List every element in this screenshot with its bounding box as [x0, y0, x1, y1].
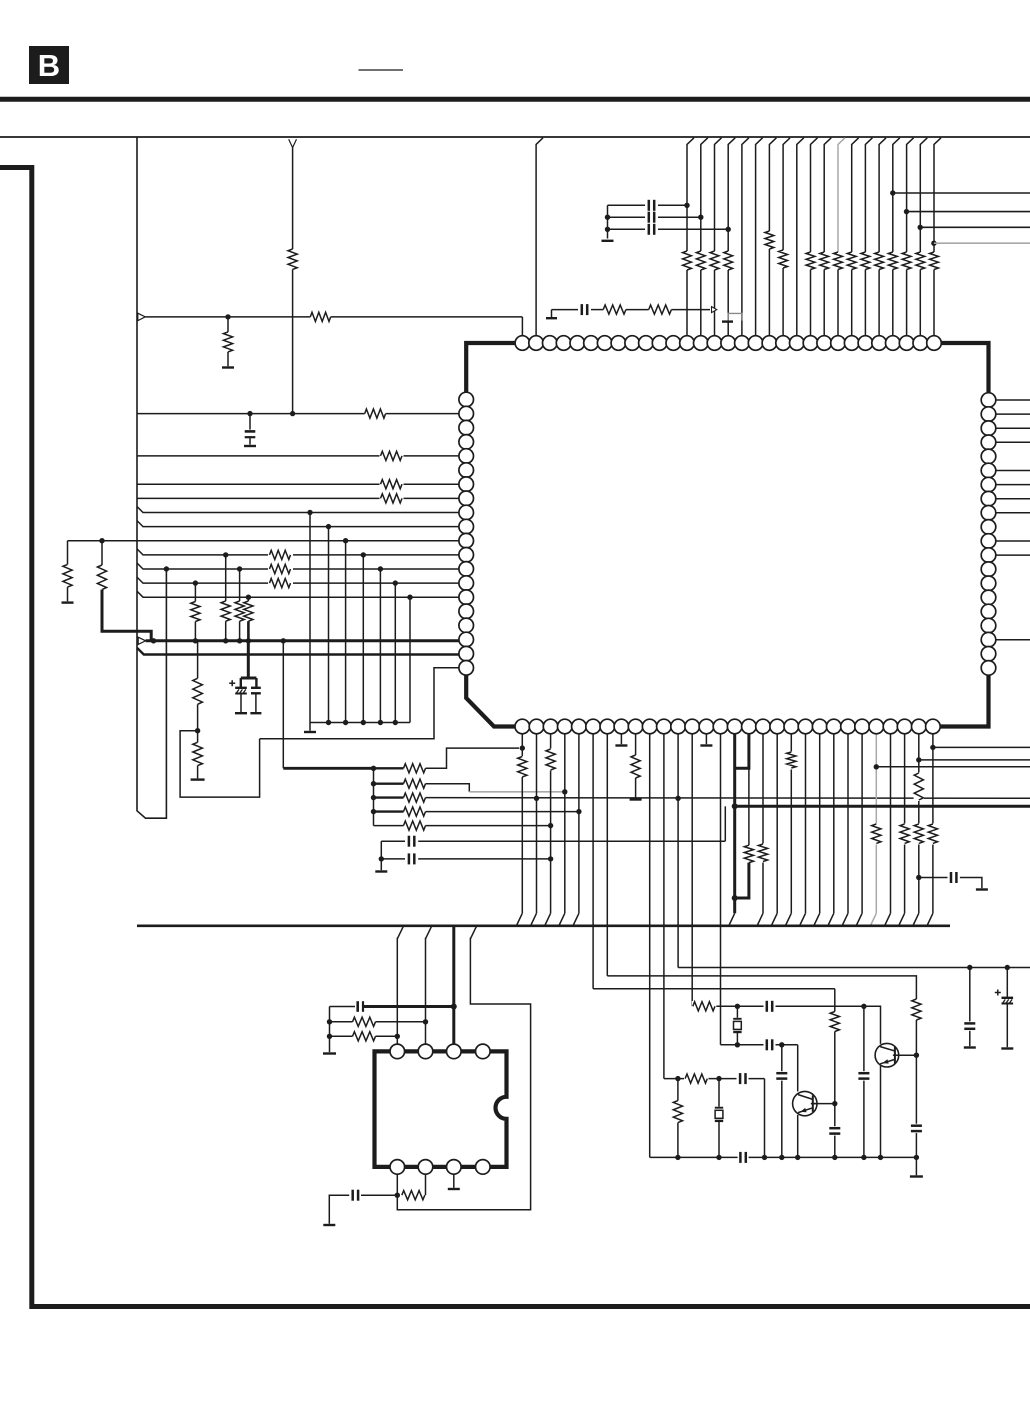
wire top pin31 to bus with resistor	[934, 138, 941, 336]
resistor branch x195	[194, 583, 196, 601]
line2 upper osc	[721, 1044, 798, 1046]
wire top pin24 to bus with resistor	[837, 252, 839, 336]
capacitor on U2 net	[330, 1006, 356, 1008]
row to left pin l15	[137, 591, 459, 597]
row to left pin l9	[137, 507, 459, 513]
capacitor branch x863	[863, 1006, 865, 1071]
thick net into U2 pin3	[363, 1005, 453, 1008]
wire with arrow from top bus	[289, 139, 297, 147]
wire bundle vertical x=395.3	[394, 583, 396, 722]
IC U2 bottom pin 6	[447, 1160, 462, 1175]
top bus line	[0, 136, 1030, 138]
net right pin r6 to edge	[996, 470, 1030, 472]
lower osc line	[664, 1078, 765, 1080]
second bus line	[137, 648, 460, 655]
row to left pin l14	[137, 577, 459, 583]
tap wire U2 pin1	[396, 938, 398, 1044]
long wire y=738.8 to left pin l20	[260, 668, 459, 739]
hatch hook	[470, 926, 476, 938]
ground stub U2 pin7	[453, 1174, 455, 1188]
capacitor + ground U2 bottom	[361, 1194, 397, 1196]
wire top pin23 to bus with resistor	[824, 138, 831, 336]
osc ground bus	[650, 1156, 738, 1158]
hatch hook	[397, 926, 403, 938]
cap row rail + ground	[380, 841, 382, 859]
wire top pin17 to bus	[742, 138, 749, 336]
wire bottom pin b5	[578, 734, 580, 914]
wire top pin19 to bus with resistor	[769, 138, 776, 336]
grounded series RC line	[551, 310, 553, 317]
row to left pin l2	[137, 413, 459, 415]
net right pin r1 to edge	[996, 399, 1030, 401]
net b26 to right edge	[876, 766, 1030, 768]
row rail x=373.5	[373, 768, 375, 825]
net line from top pin t30 to right edge	[918, 225, 923, 230]
resistor upper osc line	[692, 1001, 717, 1012]
resistor lower osc line	[684, 1073, 709, 1084]
wire top pin18 to bus	[756, 138, 763, 336]
thick tap wire U2 pin3	[452, 926, 455, 1044]
wire top pin29 to bus with resistor	[907, 138, 914, 336]
net right pin r4 to edge	[996, 441, 1030, 443]
wire bundle vertical x=310	[309, 513, 311, 723]
wire bundle vertical x=380.4	[379, 569, 381, 723]
wire bundle vertical x=328.5	[328, 527, 330, 723]
rail with ground (U2 left)	[329, 1007, 331, 1053]
IC U1 outline bottom-right	[935, 675, 989, 727]
hatch hook	[426, 926, 432, 938]
wire bottom pin b6 (net to Q1 rail)	[592, 734, 594, 989]
resistor branch x225	[225, 555, 227, 601]
wire top pin28 to bus with resistor	[893, 138, 900, 336]
wire bottom pin b27	[890, 734, 892, 914]
resistor branch x239	[239, 569, 241, 601]
wire bottom pin b23	[833, 734, 835, 914]
wire bottom pin b10 (osc rail left)	[649, 734, 651, 1158]
node row to top pin1 with resistor	[138, 313, 145, 320]
capacitor right1 to ground	[969, 968, 971, 1022]
resistor U2 row2	[330, 1035, 353, 1037]
net right pin r9 to edge	[996, 512, 1030, 514]
wire bundle vertical x=345.6	[345, 541, 347, 723]
wire top pin20 to bus with resistor	[783, 138, 790, 336]
Q2 emitter down	[880, 1066, 882, 1158]
wire top pin22 to bus with resistor	[811, 138, 818, 336]
row to left pin l7	[137, 483, 459, 485]
Q2 base to rail	[893, 1054, 917, 1056]
ground stub pin b8	[620, 734, 622, 744]
wire top pin16 to bus with resistor	[728, 138, 735, 336]
wire bus to row1	[282, 641, 284, 769]
resistor RA to ground	[67, 541, 69, 565]
IC U2 top pin 4	[476, 1044, 491, 1059]
capacitor branch to ground (row l2)	[249, 414, 251, 430]
IC U1 outline top-right	[941, 343, 989, 393]
transistor Q2	[875, 1043, 899, 1067]
net line from top pin t28 to right edge	[890, 190, 895, 195]
net b29 to right edge	[919, 759, 1030, 761]
wire bottom pin b12 (right cap net)	[677, 734, 679, 968]
capacitor row A	[381, 840, 405, 842]
wire bottom pin b7 (to Q2 base net)	[606, 734, 608, 976]
wire top pin15 to bus with resistor	[715, 138, 722, 336]
IC U2 top pin 1	[390, 1044, 405, 1059]
net right pin r3 to edge	[996, 427, 1030, 429]
main thick bus	[138, 637, 145, 644]
net b30 to right edge	[933, 746, 1030, 748]
wire bottom pin b24	[847, 734, 849, 914]
capacitor to ground (pair)	[255, 678, 257, 687]
thick wire bottom pin b17 with resistor	[735, 734, 749, 769]
resistor RB to bus (thick)	[101, 541, 103, 565]
resistor row1 to pin b1	[283, 767, 373, 770]
electrolytic right to ground	[1006, 968, 1008, 998]
wire bottom pin b19	[776, 734, 778, 914]
page top rule (thick)	[0, 97, 1030, 102]
wire top pin30 to bus with resistor	[920, 138, 927, 336]
wire top pin25 to bus with resistor	[852, 138, 859, 336]
IC U2 bottom pin 5	[476, 1160, 491, 1175]
transistor Q1	[793, 1091, 817, 1115]
resistor U2 bottom	[402, 1191, 425, 1200]
IC U1 bottom pins	[515, 719, 940, 734]
IC U2 top pin 3	[447, 1044, 462, 1059]
wire bottom pin b28	[904, 734, 906, 914]
wire bottom pin b20	[790, 734, 792, 914]
Q1 emitter to bus	[797, 1115, 799, 1158]
bus hatch line	[137, 924, 950, 927]
wire top pin14 to bus with resistor	[701, 138, 708, 336]
wire top pin21 to bus	[797, 138, 804, 336]
wire bundle vertical x=363.3	[362, 555, 364, 723]
wire bottom pin b4	[564, 734, 566, 914]
wire top pin27 to bus with resistor	[879, 138, 886, 336]
crystal X1	[718, 1079, 720, 1107]
wire bottom pin b18	[762, 734, 764, 914]
wire bottom pin b11 (lower osc)	[663, 734, 665, 1079]
wire bottom pin b13 (upper osc)	[691, 734, 693, 1007]
capacitor upper osc line	[764, 1001, 776, 1012]
IC U1 left pins	[459, 392, 474, 675]
net line from top pin t29 to right edge	[904, 209, 909, 214]
tap wire U2 pin2	[425, 938, 427, 1044]
U2 pin6 wire	[425, 1174, 427, 1195]
rail x916 cap to bus	[915, 1055, 917, 1124]
wire bottom pin b25	[861, 734, 863, 914]
capacitor branch x781	[781, 1045, 783, 1071]
ground stub pin b14	[705, 734, 707, 744]
row to left pin l12	[137, 549, 459, 555]
inner frame wire	[137, 137, 166, 818]
resistor U2 row1	[330, 1021, 353, 1023]
row to left pin l13	[137, 563, 459, 569]
row to left pin l8	[137, 497, 459, 499]
wire top pin26 to bus with resistor	[865, 138, 872, 336]
gray wire bottom pin b26	[875, 734, 877, 914]
resistor lower osc to bus	[677, 1079, 679, 1101]
capacitor C t13 row	[608, 204, 646, 206]
IC U2 top pin 2	[418, 1044, 433, 1059]
IC U1 outline bottom-left (chamfer)	[466, 675, 515, 727]
capacitor branch b29 to ground	[919, 877, 948, 879]
capacitor C t16 row	[608, 228, 646, 230]
loop wire to U2 bottom	[397, 938, 530, 1210]
wire bottom pin b29	[918, 734, 920, 914]
wire bottom pin b2	[536, 734, 538, 914]
wire top pin2 to bus	[536, 138, 543, 336]
wire bottom pin b22	[819, 734, 821, 914]
capacitor row B	[381, 858, 405, 860]
wire top pin13 to bus with resistor	[687, 138, 694, 336]
resistor pin b9 to ground	[635, 734, 637, 755]
wire bottom pin b1	[521, 734, 523, 914]
electrolytic capacitor to ground	[247, 641, 250, 678]
resistor to ground from row	[227, 317, 229, 332]
capacitor lower osc line	[737, 1073, 749, 1084]
wire bottom pin b3	[550, 734, 552, 914]
IC U2 bottom pin 8	[390, 1160, 405, 1175]
capacitor C t14 row	[608, 216, 646, 218]
wire bottom pin b15	[720, 734, 722, 1045]
capacitor row rail with ground	[607, 205, 609, 238]
net right pin r8 to edge	[996, 498, 1030, 500]
resistor row4	[374, 810, 404, 812]
mini bus with ground	[310, 722, 410, 724]
thick net y=806 to right edge	[735, 805, 1030, 808]
thick wire bottom pin b16	[733, 734, 736, 914]
loop wire from chain to long line	[180, 731, 260, 797]
svg-text:B: B	[38, 48, 60, 83]
resistor row3 long net	[374, 796, 404, 798]
resistor row2 (gray tail)	[374, 783, 404, 785]
wire line end to bus	[764, 1079, 766, 1158]
row to left pin l10	[137, 521, 459, 527]
IC U1 top pins	[515, 336, 941, 351]
resistor row5	[374, 825, 404, 827]
IC U2 bottom pin 7	[418, 1160, 433, 1175]
row to left pin l11	[68, 540, 460, 542]
section label box B	[29, 46, 69, 84]
row to left pin l5	[137, 455, 459, 457]
upper osc line	[692, 1006, 880, 1044]
net right pin r2 to edge	[996, 413, 1030, 415]
IC U1 outline top-left	[466, 343, 516, 392]
net right pin r7 to edge	[996, 484, 1030, 486]
net right pin r12 to edge	[996, 554, 1030, 556]
Q1 base to rail	[811, 1103, 835, 1105]
IC U1 right pins	[981, 393, 996, 676]
net line from top pin t31 to right edge	[931, 241, 936, 246]
wire bottom pin b30	[932, 734, 934, 914]
net right pin r18 to edge	[996, 639, 1030, 641]
wire bundle vertical x=410	[409, 597, 411, 722]
net right pin r11 to edge	[996, 540, 1030, 542]
bridge link pins t16-t17	[728, 313, 742, 320]
crystal X2	[736, 1006, 738, 1018]
rail x834 resistor+cap	[834, 989, 836, 1012]
title underline segment	[359, 69, 404, 71]
resistor branch x248	[247, 597, 249, 601]
U2 pin5 wire	[396, 1174, 398, 1195]
wire bottom pin b21	[805, 734, 807, 914]
IC U2 body	[375, 1051, 507, 1167]
double resistor chain to ground	[197, 641, 199, 679]
